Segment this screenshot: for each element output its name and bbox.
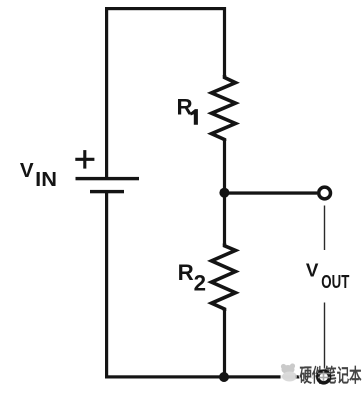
wire thin output lead (lower segment) [324,303,325,371]
svg-text:IN: IN [35,168,57,191]
wire bottom horizontal [105,375,318,378]
label R2 [178,260,206,295]
wire left vertical (top of battery) [105,7,108,179]
watermark white fade over wire (icon area) [281,362,296,386]
svg-text:R: R [178,260,194,285]
node A junction dot [219,188,229,198]
battery V1 negative plate [90,190,124,193]
wire R1 bottom lead to node A [223,139,226,194]
wire node A to output terminal [224,191,317,194]
wire top horizontal [105,7,226,10]
resistor R1 [212,75,236,141]
svg-text:2: 2 [194,270,206,295]
output terminal (open circle, top) [319,187,331,199]
bottom junction dot [219,372,229,382]
label R1 [177,94,198,125]
wire right vertical (top lead of R1) [223,7,226,76]
battery V1 positive plate [76,177,140,180]
watermark white fade over wire (text area) [300,363,318,385]
watermark logo icon [281,363,297,381]
svg-text:R: R [177,94,193,119]
wire R2 bottom lead to ground node [223,308,226,377]
resistor R2 [212,244,236,312]
wire left vertical (below battery) [105,190,108,379]
battery plus sign [75,150,94,169]
svg-text:V: V [306,259,319,280]
watermark stroke crossing bottom terminal [318,371,330,381]
svg-text:OUT: OUT [321,272,349,292]
label VIN [20,159,57,191]
output terminal (open circle, bottom) [318,371,330,383]
wire thin output lead (upper segment) [324,206,325,251]
label VOUT [306,259,349,292]
svg-text:V: V [20,159,34,182]
wire R2 top lead from node A [223,193,226,245]
